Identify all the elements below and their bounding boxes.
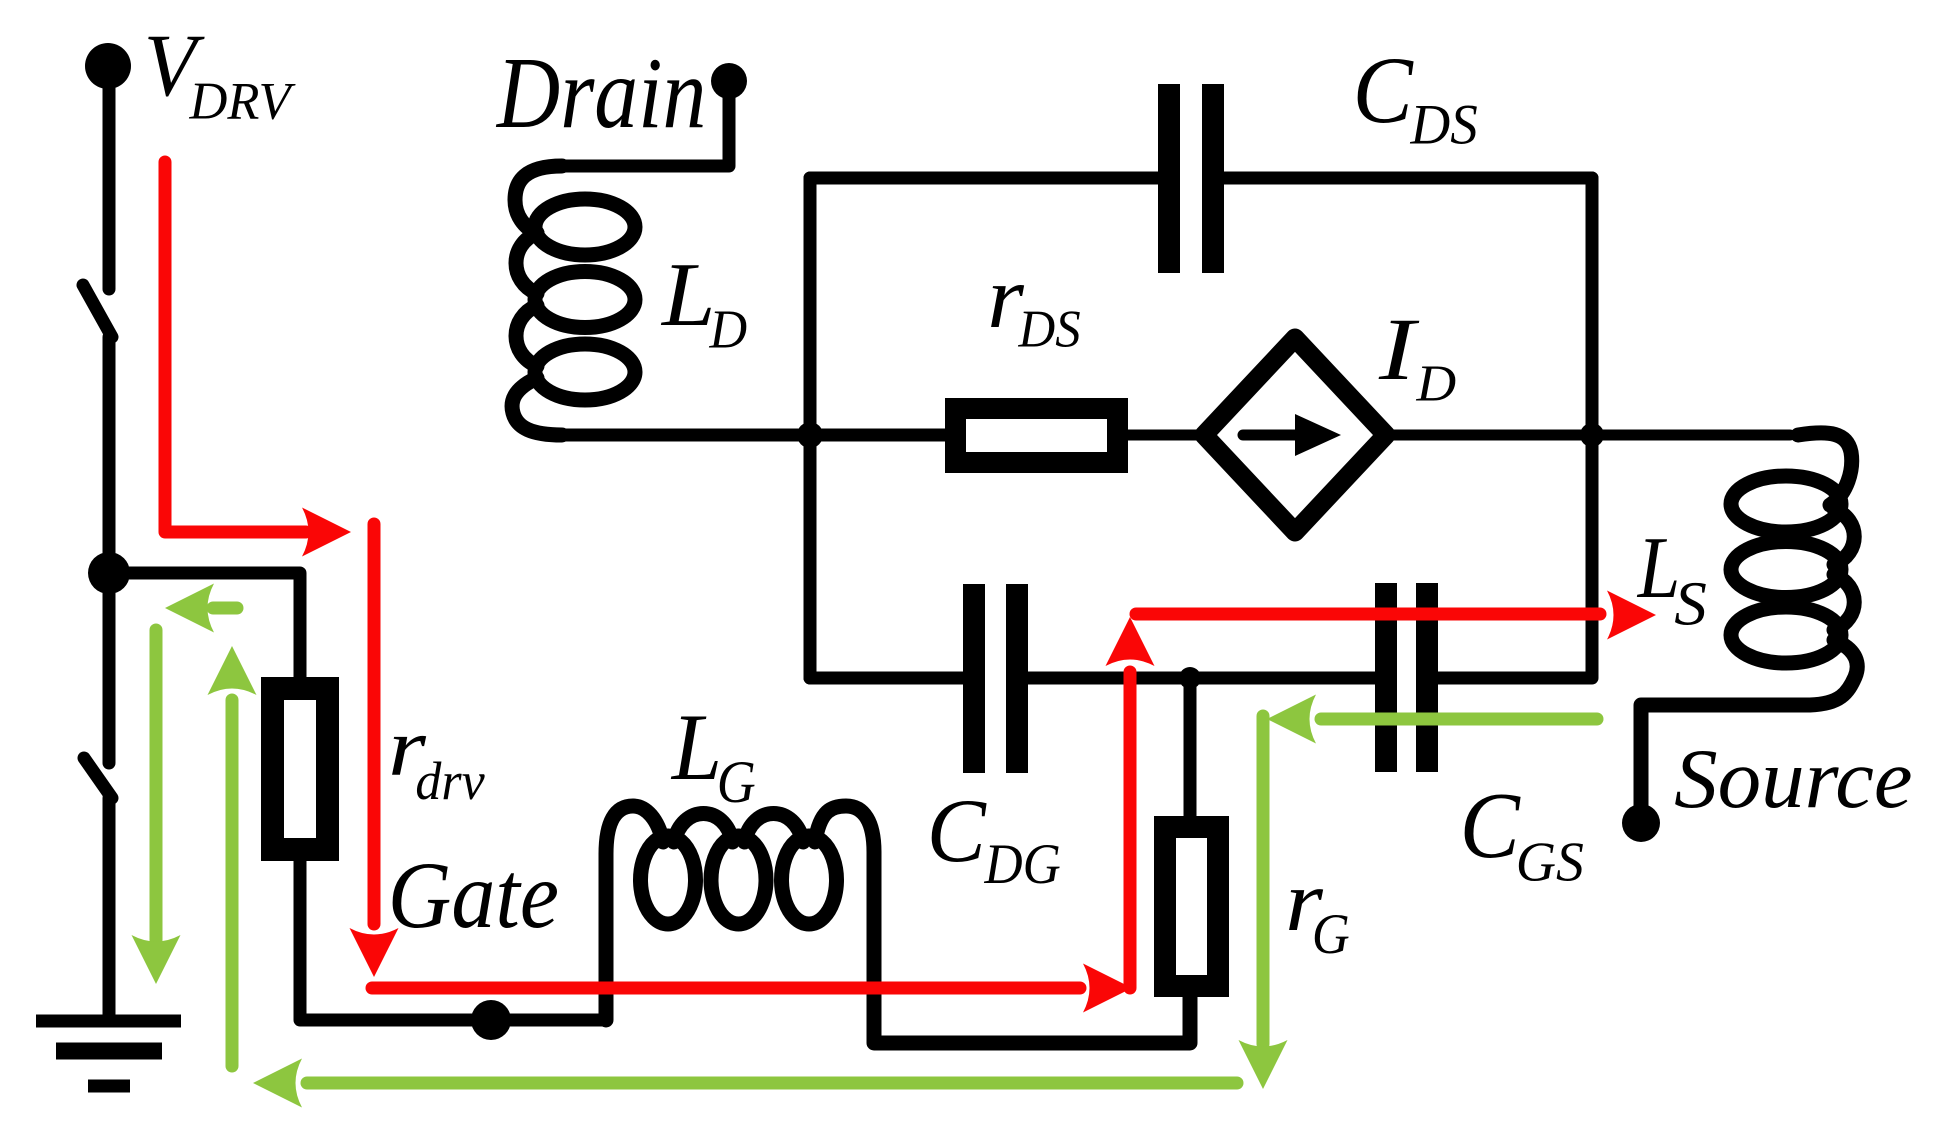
svg-text:DRV: DRV xyxy=(189,72,297,130)
svg-text:G: G xyxy=(1312,902,1350,965)
svg-text:DG: DG xyxy=(984,832,1061,895)
svg-text:Source: Source xyxy=(1674,731,1912,826)
svg-text:drv: drv xyxy=(415,752,485,811)
svg-text:S: S xyxy=(1674,569,1707,638)
svg-text:Gate: Gate xyxy=(388,842,559,948)
svg-text:D: D xyxy=(709,298,748,359)
svg-text:C: C xyxy=(1353,38,1414,144)
svg-text:DS: DS xyxy=(1018,301,1081,359)
svg-text:G: G xyxy=(717,749,756,815)
svg-text:GS: GS xyxy=(1516,831,1584,893)
svg-text:D: D xyxy=(1415,355,1456,412)
svg-text:I: I xyxy=(1378,301,1420,399)
svg-text:C: C xyxy=(1460,773,1522,877)
svg-text:Drain: Drain xyxy=(495,36,706,149)
svg-text:C: C xyxy=(927,781,987,881)
svg-text:DS: DS xyxy=(1410,93,1478,156)
svg-text:L: L xyxy=(670,695,722,801)
svg-text:L: L xyxy=(660,245,715,345)
